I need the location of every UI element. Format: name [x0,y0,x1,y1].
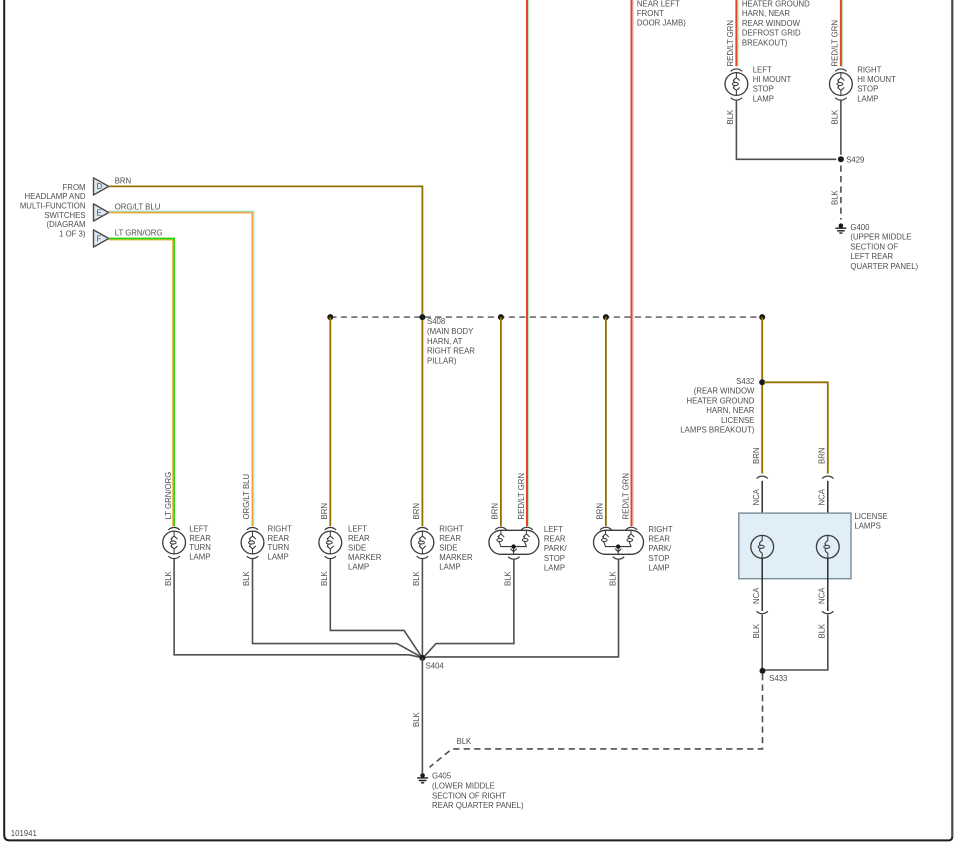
connector arc below right hi mount lamp [835,98,846,100]
svg-text:LEFTREARSIDEMARKERLAMP: LEFTREARSIDEMARKERLAMP [348,525,382,572]
svg-text:NCA: NCA [752,587,761,604]
svg-text:RED/LT GRN: RED/LT GRN [621,473,630,520]
wire RED/LT GRN to left rear park/stop lamp [527,0,529,526]
wire RED/LT GRN to left hi mount stop lamp [736,0,738,66]
svg-text:S432(REAR WINDOWHEATER GROUNDH: S432(REAR WINDOWHEATER GROUNDHARN, NEARL… [680,377,755,435]
wire BLK S404 to G405 [421,658,423,773]
svg-text:BRN: BRN [320,503,329,519]
svg-text:101941: 101941 [11,829,37,838]
connector arc below left license wire [757,611,768,613]
svg-text:RIGHTREARSIDEMARKERLAMP: RIGHTREARSIDEMARKERLAMP [439,525,473,572]
svg-text:BRN: BRN [596,503,605,519]
svg-text:F: F [97,234,102,243]
svg-text:RED/LT GRN: RED/LT GRN [726,20,735,67]
svg-text:BLK: BLK [457,737,473,746]
svg-text:RIGHTHI MOUNTSTOPLAMP: RIGHTHI MOUNTSTOPLAMP [857,65,896,103]
connector arc above left side marker lamp [325,528,336,530]
node dot 4 on bus [603,314,609,320]
svg-text:BLK: BLK [608,570,617,586]
svg-text:BLK: BLK [164,570,173,586]
lamp left rear turn [163,531,186,554]
wire BRN bus to right park/stop [605,317,607,526]
connector arcs above left park/stop lamp [495,527,506,529]
node dot 3 on bus [498,314,504,320]
splice S404 [419,655,425,661]
wire BRN bus to left side marker [329,317,331,526]
svg-text:BRN: BRN [491,503,500,519]
lamp left rear side marker [319,531,342,554]
svg-text:ORG/LT BLU: ORG/LT BLU [115,202,161,211]
svg-text:D: D [97,182,103,191]
svg-text:BLK: BLK [752,623,761,639]
svg-text:S433: S433 [769,674,787,683]
wire BRN S432 to left license lamp [761,385,763,474]
lamp right rear park/stop (dual filament) [594,530,644,554]
svg-text:BLK: BLK [504,570,513,586]
ground G405 [417,773,428,783]
svg-text:BLK: BLK [726,109,735,125]
bulb left license lamp [751,535,774,558]
wire BRN bus to left park/stop [500,317,502,526]
lamp right rear turn [241,531,264,554]
svg-text:RIGHTREARTURNLAMP: RIGHTREARTURNLAMP [268,524,292,561]
connector arc below right license wire [822,611,833,613]
wire BLK left license to S433 [761,615,763,669]
wire BRN bus to S432 [761,317,763,380]
wire NCA left below bulb [761,558,763,611]
wire BLK right license to S433 [765,615,827,671]
svg-text:S404: S404 [426,662,445,671]
wire BLK lamp6 to S404 [423,559,618,658]
svg-text:BRN: BRN [752,448,761,464]
svg-text:BLK: BLK [818,623,827,639]
svg-text:LT GRN/ORG: LT GRN/ORG [164,472,173,520]
connector D [94,178,109,195]
wire BLK lamp1 to S404 [174,559,421,658]
svg-text:HEATER GROUNDHARN, NEARREAR WI: HEATER GROUNDHARN, NEARREAR WINDOWDEFROS… [742,0,810,47]
svg-text:RED/LT GRN: RED/LT GRN [517,473,526,520]
license lamps box [739,513,851,579]
wire NCA left into license box [761,481,763,536]
svg-text:LEFTREARPARK/STOPLAMP: LEFTREARPARK/STOPLAMP [544,525,568,572]
connector E [94,204,109,221]
svg-text:NCA: NCA [818,488,827,505]
connector arc below left hi mount lamp [731,98,742,100]
svg-text:BLK: BLK [831,189,840,205]
wire BLK dashed S433 to G405 [430,674,763,767]
wire BLK lamp2 to S404 [253,559,421,657]
lamp right hi mount stop [830,73,853,96]
connector arc above right hi mount lamp [835,69,846,71]
svg-text:RIGHTREARPARK/STOPLAMP: RIGHTREARPARK/STOPLAMP [648,525,672,572]
connector arc above right side marker lamp [417,528,428,530]
svg-text:NCA: NCA [752,488,761,505]
connector arc below left park/stop lamp [508,557,519,559]
svg-text:LT GRN/ORG: LT GRN/ORG [115,228,163,237]
svg-text:BRN: BRN [115,176,131,185]
wire dashed splice bus at S408 [330,316,762,318]
node dot 1 on bus [327,314,333,320]
wire BLK dashed S429 to G400 [840,166,842,220]
svg-text:BLK: BLK [242,570,251,586]
wire NCA right below bulb [827,558,829,611]
connector arc above left license wire [757,476,768,478]
wire BLK lamp4 to S404 [421,559,423,658]
svg-text:BLK: BLK [412,711,421,727]
wire BRN S432 to right license lamp [764,382,828,473]
wire BLK lamp3 to S404 [330,559,421,656]
connector arc below right side marker lamp [417,556,428,558]
lamp right rear side marker [411,531,434,554]
ground G400 [836,223,847,233]
connector arc above right rear turn lamp [247,528,258,530]
connector arc above right license wire [822,476,833,478]
svg-text:LEFTHI MOUNTSTOPLAMP: LEFTHI MOUNTSTOPLAMP [753,65,792,103]
svg-text:S408(MAIN BODYHARN, ATRIGHT RE: S408(MAIN BODYHARN, ATRIGHT REARPILLAR) [427,317,475,366]
lamp left hi mount stop [725,73,748,96]
bulb right license lamp [816,535,839,558]
connector arc below right park/stop lamp [613,557,624,559]
wire BRN from connector D to S408 and lamp4 [109,186,423,526]
wire BLK right hi mount to S429 [840,100,842,154]
svg-text:NEAR LEFTFRONTDOOR JAMB): NEAR LEFTFRONTDOOR JAMB) [637,0,686,28]
wire RED/LT GRN to right hi mount stop lamp [841,0,843,66]
wire ORG/LT BLU from connector E to right rear turn lamp [109,211,254,526]
splice S408 [419,314,425,320]
svg-text:FROMHEADLAMP ANDMULTI-FUNCTION: FROMHEADLAMP ANDMULTI-FUNCTIONSWITCHES(D… [20,183,86,239]
node dot 5 on bus [759,314,765,320]
svg-text:NCA: NCA [818,587,827,604]
svg-text:G400(UPPER MIDDLESECTION OFLEF: G400(UPPER MIDDLESECTION OFLEFT REARQUAR… [850,223,918,271]
wire LT GRN/ORG from connector F to left rear turn lamp [109,239,174,527]
svg-text:S429: S429 [846,156,864,165]
connector arc below right rear turn lamp [247,556,258,558]
svg-text:BRN: BRN [818,448,827,464]
svg-text:LICENSELAMPS: LICENSELAMPS [854,512,887,531]
splice S432 [759,379,765,385]
wire RED/LT GRN to right rear park/stop lamp [632,0,634,526]
splice S433 [760,668,766,674]
svg-text:BRN: BRN [412,503,421,519]
connector arc above left hi mount lamp [731,69,742,71]
svg-text:BLK: BLK [320,570,329,586]
lamp left rear park/stop (dual filament) [489,530,539,554]
wire BLK left hi mount to S429 [736,100,836,159]
svg-text:RED/LT GRN: RED/LT GRN [831,20,840,67]
svg-text:ORG/LT BLU: ORG/LT BLU [242,473,251,519]
wire BLK lamp5 to S404 [424,559,514,657]
svg-text:BLK: BLK [412,570,421,586]
connector arc below left rear turn lamp [168,556,179,558]
wire NCA right into license box [827,481,829,536]
connector arc above left rear turn lamp [168,528,179,530]
splice S429 [838,156,844,162]
connector F [94,230,109,247]
svg-text:BLK: BLK [831,109,840,125]
svg-text:E: E [97,208,102,217]
connector arc below left side marker lamp [325,556,336,558]
page border right [951,0,953,837]
svg-text:G405(LOWER MIDDLESECTION OF RI: G405(LOWER MIDDLESECTION OF RIGHTREAR QU… [432,772,524,810]
svg-text:LEFTREARTURNLAMP: LEFTREARTURNLAMP [189,524,211,561]
connector arcs above right park/stop lamp [600,527,611,529]
